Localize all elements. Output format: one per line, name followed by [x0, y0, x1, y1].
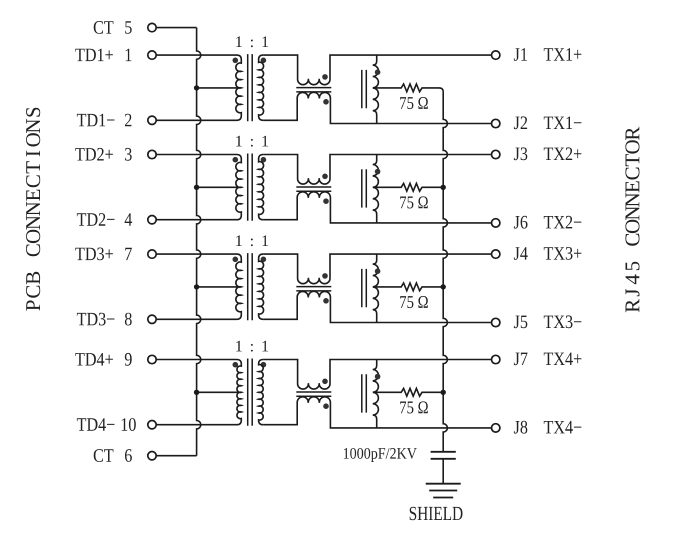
- choke L2 top winding and top wire to J pin: [263, 155, 491, 185]
- choke L3 top winding and top wire to J pin: [263, 254, 491, 284]
- autotransformer A1 winding: [373, 55, 379, 123]
- transformer T2 primary winding: [156, 155, 241, 220]
- pin TD1− 2: [148, 116, 156, 124]
- transformer T1 core: [248, 54, 253, 121]
- transformer T3 primary centre-tap wire: [197, 286, 241, 288]
- choke L1 core: [296, 88, 331, 92]
- transformer T1 secondary winding: [259, 55, 264, 120]
- transformer T4 secondary winding: [259, 360, 264, 425]
- label 75 ohm R3: [400, 296, 428, 308]
- phase dot T4 secondary: [261, 362, 267, 368]
- transformer T2 secondary winding: [259, 155, 264, 220]
- resistor R3 75 ohm: [373, 283, 443, 291]
- transformer T4 core: [248, 359, 253, 426]
- choke L1 bottom winding and bottom wire to J pin: [263, 92, 491, 123]
- caption RJ45 CONNECTOR: [625, 127, 639, 313]
- phase dot L4 top: [322, 379, 328, 385]
- transformer T3 core: [248, 253, 253, 320]
- autotransformer A2 winding: [373, 155, 379, 223]
- choke L2 core: [296, 187, 331, 191]
- choke L1 top winding and top wire to J pin: [263, 55, 491, 85]
- label ratio 1:1 T1: [236, 36, 268, 47]
- pin CT 5: [148, 23, 156, 31]
- transformer T1 primary winding: [156, 55, 241, 120]
- transformer T3 secondary winding: [259, 254, 264, 319]
- phase dot T1 secondary: [261, 58, 267, 64]
- autotransformer A1 core: [362, 70, 367, 108]
- phase dot L3 bottom: [323, 298, 329, 304]
- phase dot A4: [375, 374, 381, 380]
- phase dot T1 primary: [233, 58, 239, 64]
- label 75 ohm R2: [400, 196, 428, 208]
- choke L2 bottom winding and bottom wire to J pin: [263, 192, 491, 223]
- phase dot T2 primary: [233, 157, 239, 163]
- phase dot L1 bottom: [323, 99, 329, 105]
- autotransformer A2 core: [362, 169, 367, 207]
- junction dot centre-tap T4: [194, 390, 199, 395]
- pin TD2− 4: [148, 216, 156, 224]
- wire capacitor to ground: [442, 459, 444, 484]
- label 75 ohm R4: [400, 401, 428, 413]
- pin J6 TX2−: [492, 219, 500, 227]
- label ratio 1:1 T2: [236, 136, 268, 147]
- choke L4 top winding and top wire to J pin: [263, 360, 491, 390]
- autotransformer A4 core: [362, 374, 367, 412]
- pin J8 TX4−: [492, 424, 500, 432]
- transformer T2 primary centre-tap wire: [197, 186, 241, 188]
- label SHIELD: [410, 507, 463, 520]
- caption PCB CONNECTIONS: [26, 108, 40, 311]
- autotransformer A3 core: [362, 269, 367, 307]
- autotransformer A3 winding: [373, 254, 379, 322]
- transformer T3 primary winding: [156, 254, 241, 319]
- label 75 ohm R1: [400, 97, 428, 109]
- phase dot T3 secondary: [261, 257, 267, 263]
- junction dot centre-tap T2: [194, 185, 199, 190]
- phase dot A3: [375, 268, 381, 274]
- transformer T4 primary centre-tap wire: [197, 391, 241, 393]
- phase dot L3 top: [322, 273, 328, 279]
- pin J2 TX1−: [492, 119, 500, 127]
- label 1000pF/2KV: [344, 448, 417, 462]
- pin TD4+ 9: [148, 355, 156, 363]
- pin J4 TX3+: [492, 250, 500, 258]
- choke L3 core: [296, 287, 331, 291]
- pin J5 TX3−: [492, 318, 500, 326]
- transformer T4 primary winding: [156, 360, 241, 425]
- pin TD3− 8: [148, 315, 156, 323]
- junction dot centre-tap T1: [194, 85, 199, 90]
- pin J1 TX1+: [492, 51, 500, 59]
- junction dot centre-tap T3: [194, 284, 199, 289]
- wire common termination rail with hops: [443, 92, 447, 452]
- phase dot L1 top: [322, 74, 328, 80]
- wire CT5 to bus: [156, 27, 196, 29]
- resistor R1 75 ohm: [373, 84, 443, 92]
- junction dot rail: [441, 185, 446, 190]
- phase dot A1: [375, 69, 381, 75]
- pin CT 6: [148, 452, 156, 460]
- phase dot A2: [375, 169, 381, 175]
- pin TD1+ 1: [148, 51, 156, 59]
- phase dot L2 bottom: [323, 198, 329, 204]
- choke L4 bottom winding and bottom wire to J pin: [263, 397, 491, 428]
- phase dot T3 primary: [233, 257, 239, 263]
- transformer T1 primary centre-tap wire: [197, 87, 241, 89]
- phase dot L2 top: [322, 174, 328, 180]
- junction dot rail: [441, 284, 446, 289]
- wire bus vertical (centre-tap bus) with hops: [197, 28, 201, 456]
- choke L4 core: [296, 392, 331, 396]
- pin TD2+ 3: [148, 150, 156, 158]
- phase dot T2 secondary: [261, 157, 267, 163]
- pin J7 TX4+: [492, 355, 500, 363]
- pin TD3+ 7: [148, 250, 156, 258]
- pin J3 TX2+: [492, 150, 500, 158]
- capacitor C1 1000pF/2KV: [431, 452, 456, 459]
- wire CT6 to bus: [156, 455, 196, 457]
- phase dot L4 bottom: [323, 403, 329, 409]
- resistor R4 75 ohm: [373, 388, 443, 396]
- phase dot T4 primary: [233, 362, 239, 368]
- resistor R2 75 ohm: [373, 183, 443, 191]
- choke L3 bottom winding and bottom wire to J pin: [263, 291, 491, 322]
- label ratio 1:1 T4: [236, 341, 268, 352]
- transformer T2 core: [248, 154, 253, 221]
- autotransformer A4 winding: [373, 360, 379, 428]
- label ratio 1:1 T3: [236, 235, 268, 246]
- ground (shield): [426, 484, 461, 498]
- pin TD4− 10: [148, 421, 156, 429]
- junction dot rail: [441, 390, 446, 395]
